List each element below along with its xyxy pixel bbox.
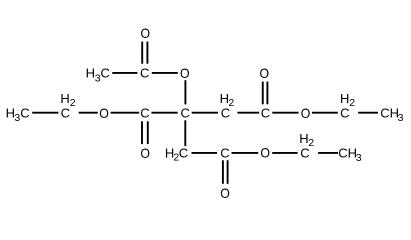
bond O5-C6 bbox=[111, 112, 140, 114]
svg-text:C: C bbox=[140, 106, 149, 121]
bond C11-CH3 bbox=[358, 112, 378, 114]
label H2 above C4 bbox=[60, 91, 75, 109]
svg-text:H: H bbox=[86, 66, 95, 81]
bond H2C-C12 bbox=[192, 152, 218, 154]
svg-text:O: O bbox=[220, 185, 230, 201]
svg-text:C: C bbox=[221, 106, 230, 121]
svg-text:O: O bbox=[140, 145, 150, 161]
svg-text:C: C bbox=[338, 145, 347, 160]
bond C4-O5 bbox=[79, 112, 98, 114]
svg-text:3: 3 bbox=[398, 112, 404, 124]
double bond C6=O6b bbox=[142, 121, 148, 144]
bond C12-O13 bbox=[232, 152, 259, 154]
bond O10-C11 bbox=[312, 112, 338, 114]
svg-text:O: O bbox=[180, 65, 190, 81]
svg-text:O: O bbox=[260, 65, 270, 81]
atom H3C (acetyl methyl) bbox=[86, 66, 110, 85]
label H2 above C11 bbox=[340, 91, 355, 109]
bond H3C-C2 bbox=[112, 72, 137, 74]
double bond C9=O9t bbox=[263, 82, 268, 105]
svg-text:H: H bbox=[60, 91, 69, 106]
svg-text:C: C bbox=[220, 145, 229, 160]
svg-text:3: 3 bbox=[356, 152, 362, 164]
svg-text:C: C bbox=[380, 106, 389, 121]
bond C8-C9 bbox=[237, 112, 259, 114]
svg-text:O: O bbox=[141, 25, 151, 41]
bond C7-C8 bbox=[192, 112, 218, 114]
atom CH3 (lower ethyl terminal methyl) bbox=[338, 145, 361, 164]
svg-text:O: O bbox=[301, 105, 311, 121]
svg-text:C: C bbox=[179, 145, 188, 160]
bond H3C-C4 bbox=[32, 112, 58, 114]
bond C6-C7 bbox=[151, 112, 177, 114]
bond C9-O10 bbox=[272, 112, 298, 114]
svg-text:C: C bbox=[261, 106, 270, 121]
bond C14-CH3 bbox=[318, 152, 338, 154]
bond O3-C7 bbox=[184, 80, 186, 104]
svg-text:O: O bbox=[260, 145, 270, 161]
svg-text:C: C bbox=[181, 106, 190, 121]
svg-text:2: 2 bbox=[349, 97, 355, 109]
svg-text:C: C bbox=[340, 106, 349, 121]
double bond C12=O12b bbox=[223, 160, 228, 184]
svg-text:C: C bbox=[300, 145, 309, 160]
label H2 above C8 bbox=[220, 91, 235, 109]
atom H2C (lower branch CH2) bbox=[165, 145, 188, 163]
svg-text:H: H bbox=[340, 91, 349, 106]
bond C7-H2C (vertical to lower branch) bbox=[184, 120, 186, 146]
svg-text:C: C bbox=[101, 66, 110, 81]
svg-text:C: C bbox=[140, 66, 149, 81]
bond C2-O3 bbox=[152, 72, 178, 74]
double bond O1=C2 bbox=[142, 42, 147, 64]
svg-text:O: O bbox=[99, 105, 109, 121]
svg-text:C: C bbox=[20, 106, 29, 121]
label H2 above C14 bbox=[299, 131, 314, 149]
bond O13-C14 bbox=[272, 152, 297, 154]
svg-text:2: 2 bbox=[70, 97, 76, 109]
atom H3C (left ethyl terminal methyl) bbox=[6, 106, 30, 125]
svg-text:C: C bbox=[61, 106, 70, 121]
atom CH3 (right ethyl terminal methyl) bbox=[380, 106, 403, 125]
